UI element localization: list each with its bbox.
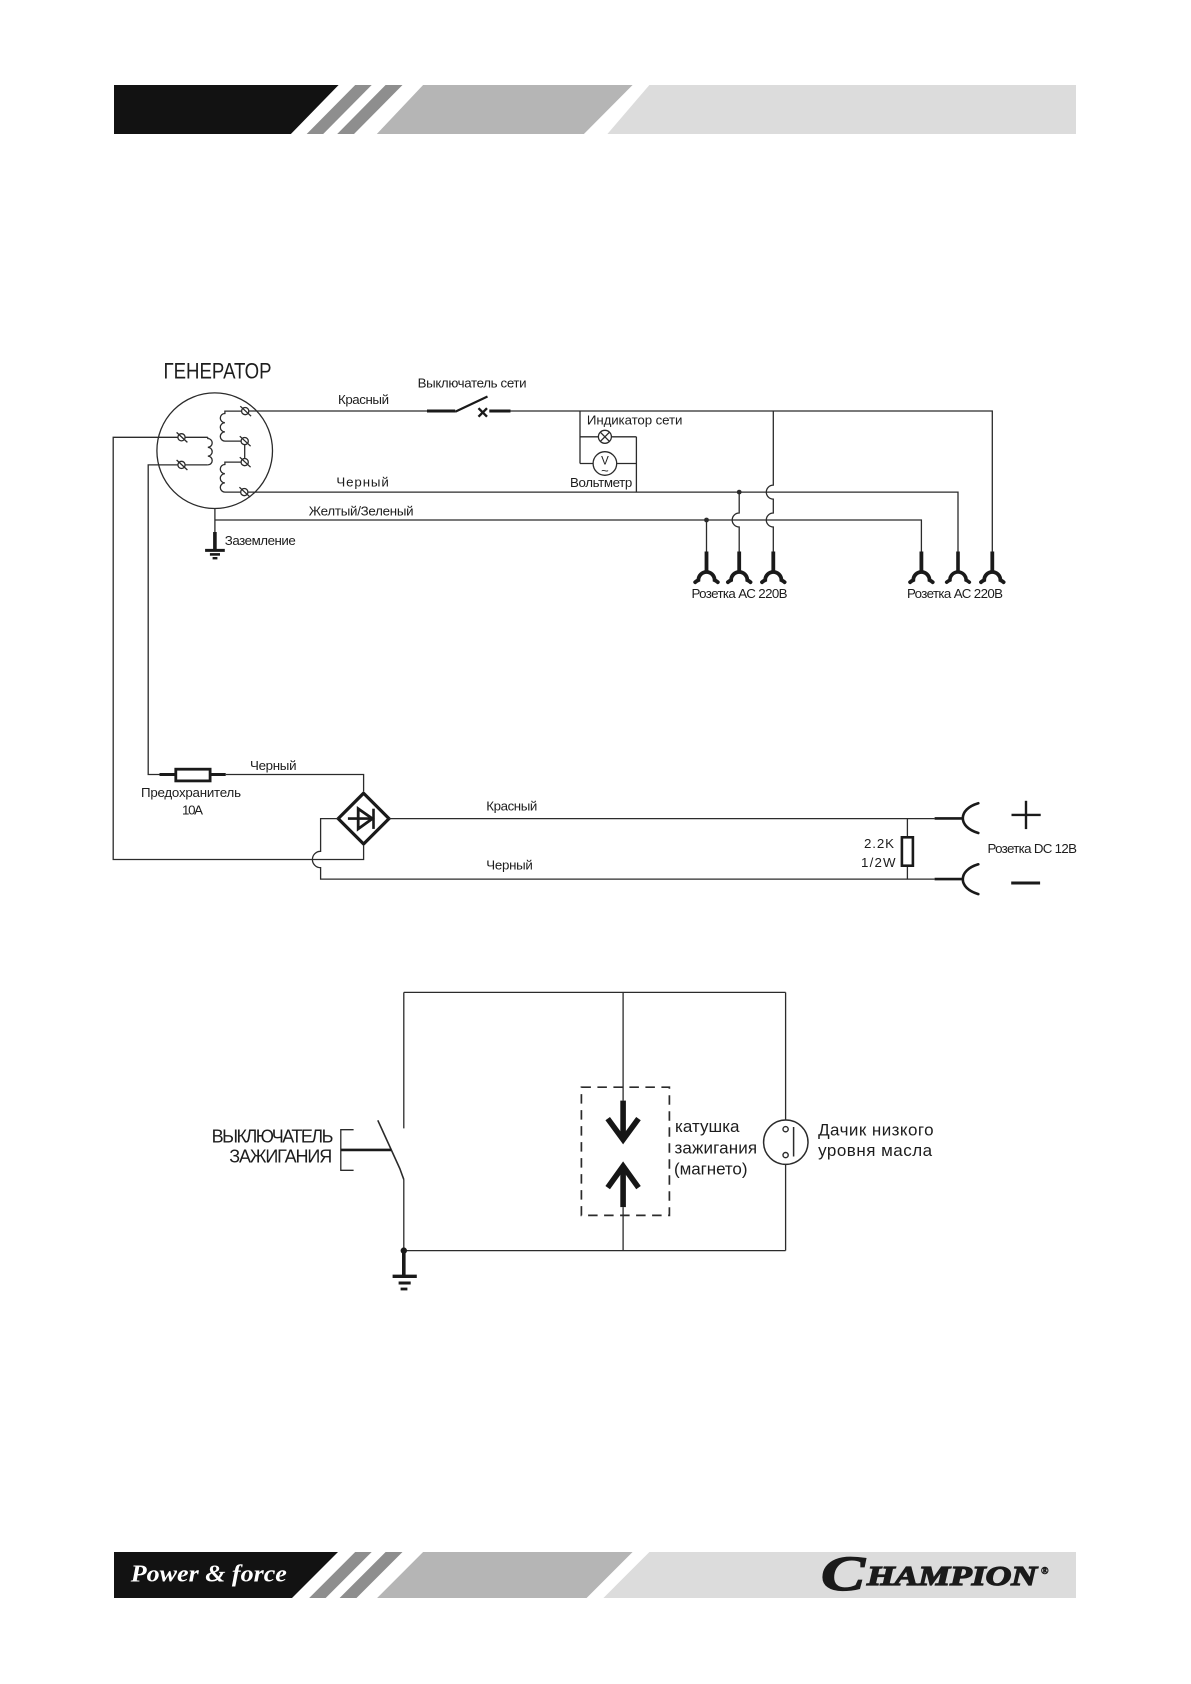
ground symbol (ignition) bbox=[393, 1251, 417, 1289]
label Индикатор сети bbox=[587, 413, 683, 428]
label Выключатель сети bbox=[418, 376, 527, 391]
switch S1 Выключатель сети bbox=[427, 397, 511, 417]
AC outlet 2 prong contact a bbox=[910, 552, 933, 583]
ignition switch upper contact wire bbox=[403, 992, 405, 1128]
oil level sensor B1 body bbox=[764, 1120, 808, 1164]
wire outlet1 right prong drop with hops over black and yellow/green bbox=[766, 411, 773, 552]
header banner black parallelogram bbox=[114, 85, 339, 134]
wire field-top to left bus down to DC input bbox=[113, 437, 363, 859]
label Черный (main) bbox=[336, 475, 388, 490]
label Желтый/Зеленый bbox=[309, 503, 414, 518]
label Красный (top) bbox=[338, 392, 389, 407]
oil sensor pin top bbox=[783, 1127, 788, 1132]
footer banner black parallelogram bbox=[114, 1552, 338, 1598]
header banner light gray band bbox=[607, 85, 1076, 134]
oil sensor contact bar bbox=[793, 1127, 795, 1157]
label ВЫКЛЮЧАТЕЛЬ bbox=[212, 1127, 334, 1147]
footer logo Power & force bbox=[130, 1561, 287, 1588]
oil sensor pin bottom bbox=[783, 1153, 788, 1158]
label Розетка DC 12В bbox=[988, 841, 1078, 856]
ignition switch S2 blade bbox=[378, 1120, 404, 1179]
svg-text:C: C bbox=[821, 1545, 866, 1601]
wire field-bottom to inner bus down to fuse bbox=[148, 465, 178, 775]
svg-text:Индикатор сети: Индикатор сети bbox=[587, 413, 683, 428]
svg-text:зажигания: зажигания bbox=[675, 1138, 758, 1157]
DC socket minus contact lead bbox=[935, 878, 963, 881]
AC outlet 2 prong contact c bbox=[981, 552, 1004, 583]
label Предохранитель bbox=[141, 785, 241, 800]
voltmeter PV1 bbox=[593, 452, 617, 476]
fuse F1 body bbox=[176, 769, 210, 781]
label 1/2W bbox=[861, 855, 896, 870]
svg-text:Розетка АС 220В: Розетка АС 220В bbox=[907, 586, 1003, 601]
label Вольтметр bbox=[570, 475, 632, 490]
wire outlet1 middle prong drop with hop over yellow/green bbox=[732, 492, 739, 551]
generator terminal pin (main mid1) bbox=[240, 436, 251, 446]
label зажигания bbox=[675, 1138, 758, 1157]
label Красный (DC) bbox=[486, 799, 537, 814]
generator field winding coil L1 bbox=[185, 437, 212, 465]
junction dot on yellow/green wire at outlet1 bbox=[704, 518, 709, 523]
svg-text:1/2W: 1/2W bbox=[861, 855, 896, 870]
generator main winding coil L3 (lower) bbox=[220, 462, 241, 492]
indicator lamp HL1 bbox=[598, 430, 611, 443]
oil sensor lower wire bbox=[785, 1164, 787, 1250]
generator terminal pin (main top / red) bbox=[240, 406, 251, 416]
header banner gray stripe 1 bbox=[307, 85, 372, 134]
svg-text:Розетка АС 220В: Розетка АС 220В bbox=[692, 586, 788, 601]
svg-text:Предохранитель: Предохранитель bbox=[141, 785, 241, 800]
ignition coil vertical wire lower bbox=[622, 1207, 624, 1251]
wire outlet1 left prong drop bbox=[706, 520, 708, 552]
svg-text:Розетка DC 12В: Розетка DC 12В bbox=[988, 841, 1078, 856]
wire fuse to bridge top bbox=[226, 775, 364, 792]
bridge rectifier diode symbol bbox=[348, 809, 374, 829]
svg-text:Дачик низкого: Дачик низкого bbox=[818, 1121, 934, 1140]
label Черный (fuse wire) bbox=[250, 758, 297, 773]
wire black main AC line bbox=[248, 492, 958, 551]
generator terminal pin (field bottom) bbox=[177, 460, 188, 470]
fuse F1 10A leads bbox=[160, 773, 226, 776]
generator terminal pin (main mid2) bbox=[240, 457, 251, 467]
footer logo CHAMPION bbox=[821, 1545, 1049, 1601]
plus symbol bbox=[1012, 801, 1041, 829]
label Розетка АС 220В (outlet 1) bbox=[692, 586, 788, 601]
bridge rectifier VD1 diamond bbox=[338, 793, 389, 844]
ground symbol (generator) bbox=[205, 532, 225, 558]
ignition loop top wire bbox=[404, 991, 786, 993]
generator G1 body circle bbox=[157, 393, 273, 509]
ignition switch lower wire bbox=[403, 1180, 405, 1251]
junction dot on black wire at outlet1 bbox=[737, 490, 742, 495]
label уровня масла bbox=[818, 1141, 933, 1160]
ignition coil up arrow bbox=[608, 1166, 639, 1207]
svg-text:Красный: Красный bbox=[486, 799, 537, 814]
label Розетка АС 220В (outlet 2) bbox=[907, 586, 1003, 601]
svg-text:HAMPION: HAMPION bbox=[866, 1560, 1039, 1591]
svg-text:Выключатель сети: Выключатель сети bbox=[418, 376, 527, 391]
svg-text:Заземление: Заземление bbox=[225, 533, 296, 548]
generator ground lead wire bbox=[214, 509, 216, 533]
wire yellow/green earth line bbox=[215, 520, 922, 552]
svg-text:Красный: Красный bbox=[338, 392, 389, 407]
wire red DC positive bbox=[389, 818, 935, 820]
generator main winding coil L2 (upper) bbox=[220, 411, 241, 441]
junction dot ignition ground bbox=[401, 1247, 407, 1253]
label Дачик низкого bbox=[818, 1121, 934, 1140]
generator terminal pin (field top) bbox=[177, 432, 188, 442]
footer banner gray stripe 1 bbox=[309, 1552, 372, 1598]
footer banner light gray band bbox=[603, 1552, 1076, 1598]
ignition coil down arrow bbox=[608, 1101, 639, 1140]
ignition switch actuator bracket bbox=[341, 1130, 391, 1171]
voltmeter PV1 leads bbox=[580, 463, 636, 465]
DC socket plus contact lead bbox=[935, 817, 963, 820]
svg-text:ЗАЖИГАНИЯ: ЗАЖИГАНИЯ bbox=[229, 1147, 332, 1167]
DC socket minus contact bbox=[963, 864, 979, 894]
wire bridge left vertex with hop over AC input bbox=[312, 819, 934, 880]
svg-text:ГЕНЕРАТОР: ГЕНЕРАТОР bbox=[164, 358, 272, 383]
AC outlet 1 prong contact a bbox=[695, 552, 718, 583]
label катушка bbox=[675, 1117, 740, 1136]
header banner medium gray parallelogram bbox=[377, 85, 633, 134]
resistor R1 body bbox=[902, 837, 913, 865]
generator G1 label bbox=[164, 358, 272, 383]
oil sensor upper wire bbox=[785, 992, 787, 1120]
label ЗАЖИГАНИЯ bbox=[229, 1147, 332, 1167]
wire red main AC line bbox=[249, 411, 993, 552]
svg-text:Power & force: Power & force bbox=[130, 1561, 287, 1588]
footer banner medium gray parallelogram bbox=[377, 1552, 632, 1598]
svg-text:Желтый/Зеленый: Желтый/Зеленый bbox=[309, 503, 414, 518]
svg-text:2.2K: 2.2K bbox=[864, 836, 894, 851]
resistor R1 leads bbox=[906, 819, 908, 880]
wire link between mid terminals bbox=[244, 445, 246, 459]
svg-text:ВЫКЛЮЧАТЕЛЬ: ВЫКЛЮЧАТЕЛЬ bbox=[212, 1127, 334, 1147]
generator terminal pin (main bottom / black) bbox=[239, 487, 250, 497]
header banner gray stripe 2 bbox=[337, 85, 402, 134]
minus symbol bbox=[1011, 882, 1040, 885]
ignition coil dashed box bbox=[581, 1087, 669, 1215]
AC outlet 1 prong contact b bbox=[728, 552, 751, 583]
AC outlet 1 prong contact c bbox=[762, 552, 785, 583]
voltmeter V and ~ marks bbox=[601, 456, 609, 479]
DC socket plus contact bbox=[963, 803, 979, 833]
label 10А bbox=[182, 803, 203, 818]
svg-text:®: ® bbox=[1041, 1566, 1049, 1577]
svg-text:Черный: Черный bbox=[336, 475, 388, 490]
svg-text:(магнето): (магнето) bbox=[674, 1160, 748, 1179]
label (магнето) bbox=[674, 1160, 748, 1179]
label 2.2K bbox=[864, 836, 894, 851]
svg-text:Вольтметр: Вольтметр bbox=[570, 475, 632, 490]
footer banner gray stripe 2 bbox=[340, 1552, 403, 1598]
label Заземление bbox=[225, 533, 296, 548]
svg-text:уровня масла: уровня масла bbox=[818, 1141, 933, 1160]
svg-text:Черный: Черный bbox=[486, 858, 533, 873]
svg-text:10А: 10А bbox=[182, 803, 203, 818]
AC outlet 2 prong contact b bbox=[947, 552, 970, 583]
indicator branch left vertical wire bbox=[579, 411, 581, 464]
indicator lamp HL1 leads bbox=[580, 436, 636, 438]
svg-text:катушка: катушка bbox=[675, 1117, 740, 1136]
label Черный (DC) bbox=[486, 858, 533, 873]
svg-text:Черный: Черный bbox=[250, 758, 297, 773]
ignition coil vertical wire upper bbox=[622, 992, 624, 1100]
indicator branch right vertical wire bbox=[635, 437, 637, 492]
ignition loop bottom wire bbox=[404, 1250, 786, 1252]
